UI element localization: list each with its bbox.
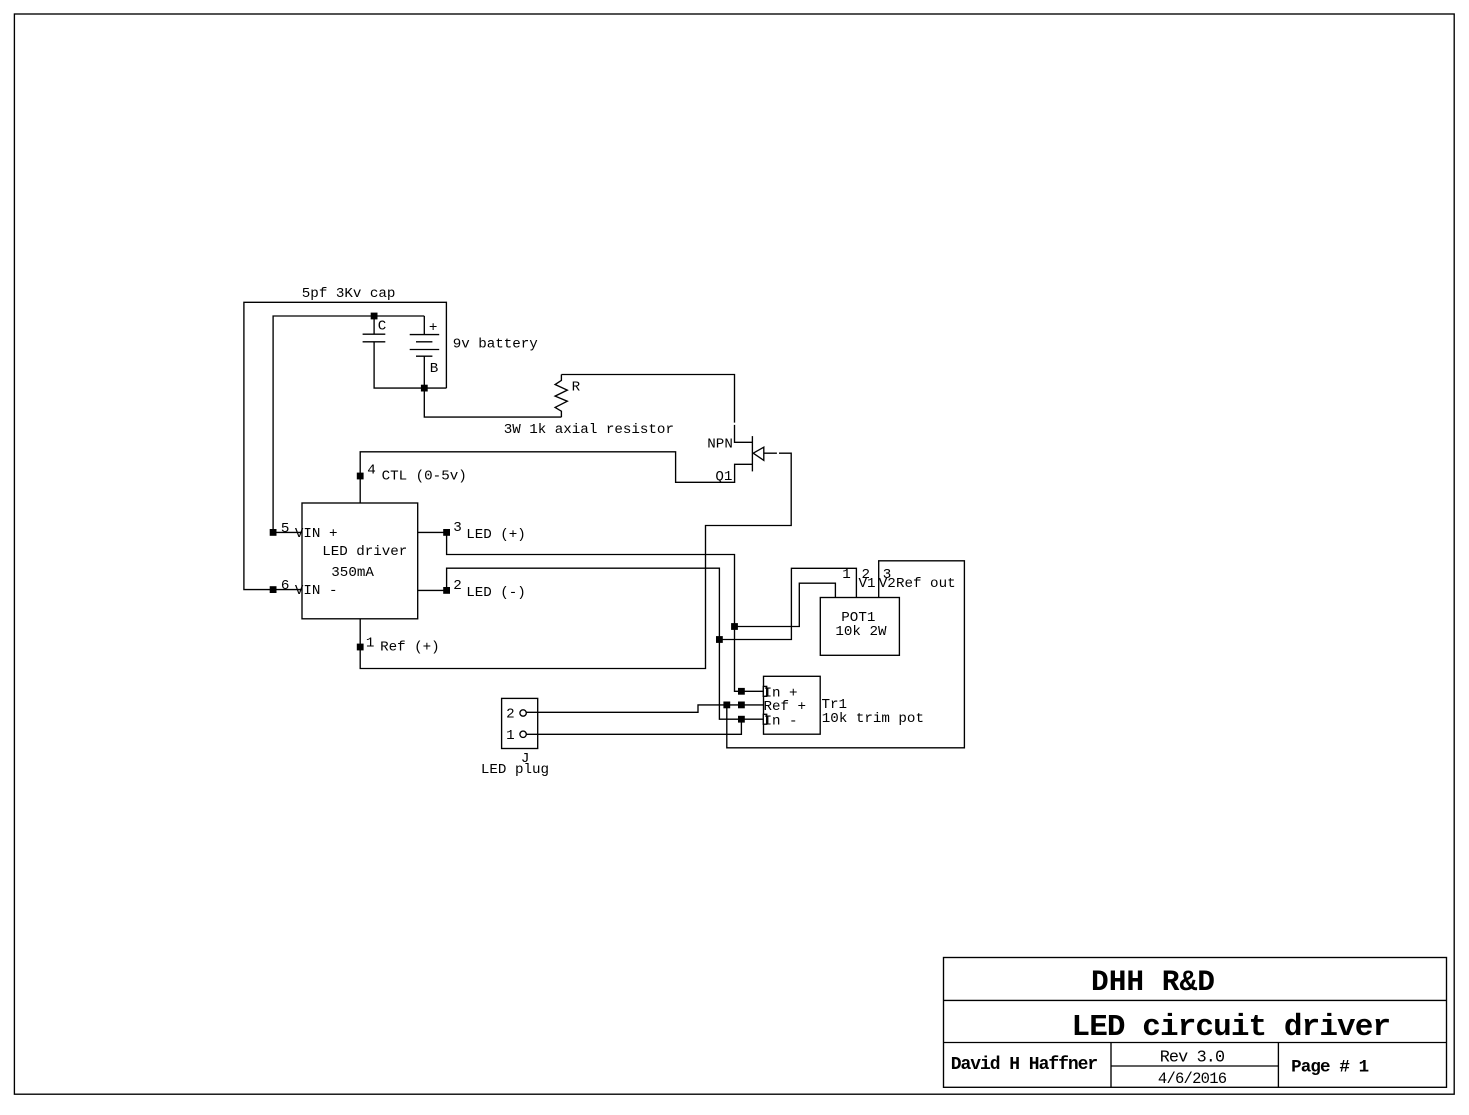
transistor Q1 NPN: [752, 436, 763, 471]
node battery bottom junction: [421, 385, 428, 392]
svg-text:3W 1k axial resistor: 3W 1k axial resistor: [504, 422, 674, 438]
battery B 9v: [410, 335, 440, 357]
svg-text:2: 2: [506, 707, 515, 723]
svg-text:B: B: [430, 361, 439, 377]
wire plug pin2 to Tr1 Ref+ and Ref out loop to POT1 pin3: [526, 561, 964, 748]
svg-text:Q1: Q1: [715, 469, 732, 485]
svg-text:VIN +: VIN +: [295, 526, 338, 542]
node pin1 Ref+: [357, 644, 364, 651]
svg-text:1: 1: [366, 635, 375, 651]
plug pin 2 circle: [520, 710, 526, 716]
wire VIN- outer loop: [244, 302, 447, 589]
svg-text:CTL (0-5v): CTL (0-5v): [382, 469, 467, 485]
svg-text:+: +: [429, 320, 438, 336]
svg-text:DHH R&D: DHH R&D: [1091, 965, 1215, 999]
svg-text:1: 1: [506, 728, 515, 744]
svg-text:9v battery: 9v battery: [453, 337, 539, 353]
svg-text:LED circuit driver: LED circuit driver: [1072, 1010, 1391, 1045]
svg-text:V1: V1: [859, 576, 876, 592]
Tr1 pin rect In-: [763, 714, 766, 724]
svg-text:In -: In -: [764, 713, 798, 729]
svg-text:Rev 3.0: Rev 3.0: [1160, 1049, 1225, 1068]
resistor R: [555, 375, 567, 418]
svg-text:NPN: NPN: [707, 436, 733, 452]
title block rev/date divider: [1111, 1065, 1278, 1067]
svg-text:5pf 3Kv cap: 5pf 3Kv cap: [302, 286, 396, 302]
capacitor C: [363, 334, 386, 342]
LED driver box: [302, 503, 418, 619]
svg-text:Ref (+): Ref (+): [380, 640, 440, 656]
svg-text:V2: V2: [879, 576, 896, 592]
title block outer rect: [944, 958, 1447, 1088]
node pin4 CTL: [357, 473, 364, 480]
node LED- junction: [716, 636, 723, 643]
node cap/battery top junction: [371, 313, 378, 320]
connector J LED plug box: [502, 698, 538, 748]
title block column divider 1: [1110, 1043, 1112, 1088]
wire Q1 emitter to CTL pin 4: [360, 452, 752, 503]
svg-text:1: 1: [842, 567, 851, 583]
svg-text:4: 4: [367, 463, 376, 479]
wire cap bottom / battery bottom: [374, 342, 446, 388]
Tr1 pin rect In+: [763, 686, 766, 696]
svg-text:LED (+): LED (+): [466, 527, 526, 543]
trim pot Tr1 box: [764, 676, 821, 734]
wire LED(-) pin 2 to POT1 pin2 and Tr1 In-: [418, 568, 857, 719]
svg-text:6: 6: [281, 578, 290, 594]
node Ref+ junction: [723, 702, 730, 709]
node pin5: [270, 529, 277, 536]
wire battery bottom stub: [423, 356, 425, 388]
svg-text:5: 5: [281, 521, 290, 537]
svg-text:R: R: [572, 380, 581, 396]
svg-text:David H Haffner: David H Haffner: [951, 1055, 1098, 1075]
svg-text:LED (-): LED (-): [466, 585, 526, 601]
plug pin 1 circle: [520, 731, 526, 737]
svg-text:4/6/2016: 4/6/2016: [1158, 1070, 1227, 1088]
wire Q1 base to Ref(+) pin 1: [360, 453, 791, 668]
title block column divider 2: [1277, 1043, 1279, 1088]
wire cap top stub: [373, 316, 375, 334]
svg-text:10k trim pot: 10k trim pot: [822, 711, 924, 727]
svg-text:3: 3: [453, 520, 462, 536]
wire plug pin1 to Tr1 In-: [526, 719, 741, 734]
node pin2 LED-: [443, 587, 450, 594]
wire battery to resistor bottom: [424, 388, 561, 417]
svg-text:350mA: 350mA: [331, 565, 374, 581]
title block row divider 1: [944, 999, 1447, 1001]
svg-text:VIN -: VIN -: [295, 583, 338, 599]
svg-text:C: C: [378, 318, 387, 334]
wire resistor top to Q1 collector: [561, 375, 752, 443]
svg-text:10k 2W: 10k 2W: [835, 624, 887, 640]
svg-text:Page # 1: Page # 1: [1291, 1058, 1369, 1078]
node pin3 LED+: [443, 529, 450, 536]
title block row divider 2: [944, 1042, 1447, 1044]
svg-text:Ref out: Ref out: [896, 576, 956, 592]
node Tr1 In+ pin: [738, 688, 745, 695]
svg-text:LED plug: LED plug: [481, 762, 549, 778]
node pin6: [270, 586, 277, 593]
node LED+ junction: [731, 623, 738, 630]
wire VIN+ / cap top: [273, 316, 424, 532]
potentiometer POT1 box: [820, 598, 899, 656]
wire battery top stub: [423, 316, 425, 335]
wire LED(+) pin 3 to POT1 pin1 and Tr1 In+: [418, 532, 836, 691]
node Tr1 Ref+ pin: [738, 702, 745, 709]
svg-text:LED driver: LED driver: [322, 544, 407, 560]
node Tr1 In- pin: [738, 716, 745, 723]
svg-text:2: 2: [453, 578, 462, 594]
